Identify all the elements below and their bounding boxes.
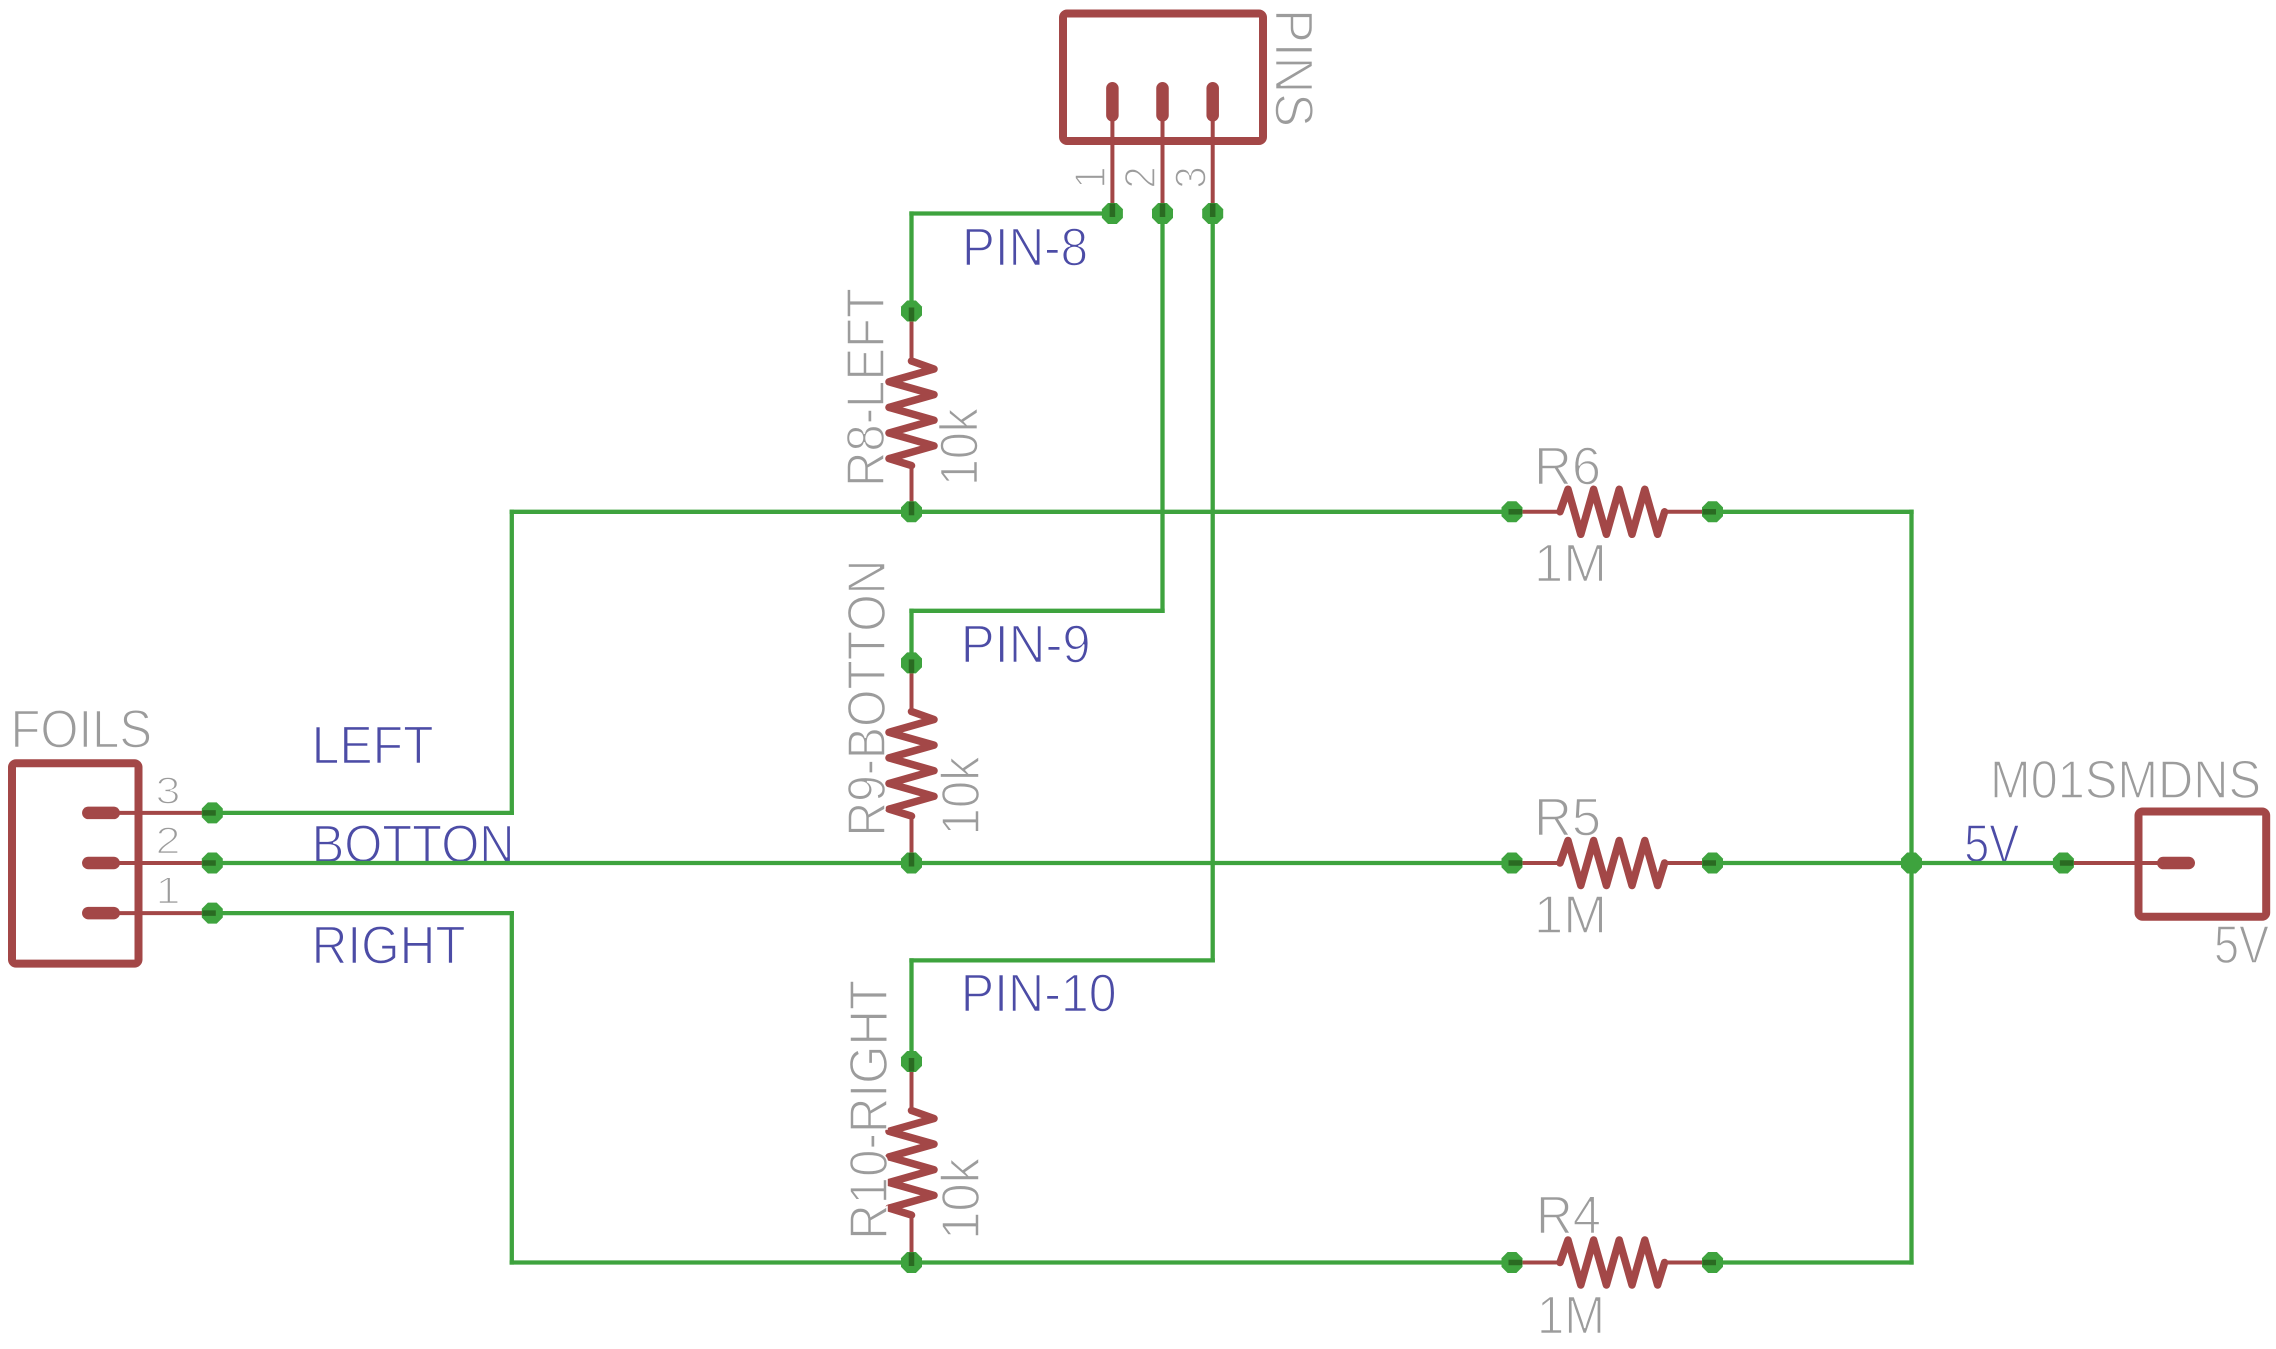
resistor R5 xyxy=(1512,841,1713,886)
connector PINS pin 2 xyxy=(1156,88,1169,213)
label R4 value 1M xyxy=(1537,1286,1605,1346)
svg-text:10k: 10k xyxy=(931,756,991,836)
junction R9 bottom on net BOTTON xyxy=(901,853,922,874)
label 5V under M01SMDNS xyxy=(2214,915,2269,975)
svg-text:R9-BOTTON: R9-BOTTON xyxy=(837,560,897,837)
connector PINS pin 1 xyxy=(1106,88,1119,213)
pin number 2 of PINS xyxy=(1116,167,1165,189)
svg-text:LEFT: LEFT xyxy=(312,715,434,775)
svg-text:2: 2 xyxy=(156,821,181,863)
pin number 1 of PINS xyxy=(1066,167,1115,189)
wire net LEFT vertical riser xyxy=(510,512,514,813)
svg-text:R6: R6 xyxy=(1534,437,1601,497)
connector PINS pin 3 xyxy=(1206,88,1219,213)
node R4 pin 2 xyxy=(1702,1252,1723,1273)
svg-text:1M: 1M xyxy=(1534,885,1607,945)
junction R8 bottom on net LEFT xyxy=(901,501,922,522)
connector FOILS pin 1 xyxy=(88,907,212,920)
label R6 value 1M xyxy=(1534,533,1607,593)
label R9 value 10k xyxy=(931,756,991,836)
connector FOILS body xyxy=(12,763,139,963)
svg-text:2: 2 xyxy=(1116,167,1165,189)
label R10-RIGHT name xyxy=(839,980,899,1240)
svg-text:1M: 1M xyxy=(1537,1286,1605,1346)
junction net 5V at right trunk xyxy=(1901,853,1922,874)
label M01SMDNS xyxy=(1990,750,2261,810)
net label RIGHT xyxy=(312,916,466,976)
wire net 5V to connector M01SMDNS xyxy=(1912,861,2064,865)
svg-text:R4: R4 xyxy=(1536,1185,1601,1245)
net label PIN-8 xyxy=(962,217,1088,277)
wire net PIN-10 horizontal segment xyxy=(912,958,1213,962)
label PINS xyxy=(1264,9,1324,127)
pin number 3 of PINS xyxy=(1166,167,1215,189)
pin number 2 of FOILS xyxy=(156,821,181,863)
label R4 name xyxy=(1536,1185,1601,1245)
svg-text:R5: R5 xyxy=(1534,788,1601,848)
svg-text:R10-RIGHT: R10-RIGHT xyxy=(839,980,899,1240)
node R5 pin 2 xyxy=(1702,853,1723,874)
node R5 pin 1 xyxy=(1502,853,1523,874)
connector M01SMDNS body xyxy=(2139,812,2267,917)
node R4 pin 1 xyxy=(1502,1252,1523,1273)
wire net 5V from R5 to right trunk xyxy=(1713,861,1912,865)
wire net RIGHT horizontal from FOILS pin 1 xyxy=(212,911,512,915)
svg-text:PINS: PINS xyxy=(1264,9,1324,127)
node R9 top xyxy=(901,652,922,673)
svg-text:FOILS: FOILS xyxy=(11,700,153,760)
svg-text:10k: 10k xyxy=(930,407,990,486)
node FOILS pin 3 / net LEFT xyxy=(202,802,223,823)
node R6 pin 1 xyxy=(1502,501,1523,522)
node FOILS pin 2 / net BOTTON xyxy=(202,853,223,874)
wire net RIGHT long bottom row to R4 xyxy=(512,1260,1512,1264)
resistor R4 xyxy=(1512,1240,1713,1285)
pin number 3 of FOILS xyxy=(156,770,181,812)
node PINS pin 2 / net PIN-9 xyxy=(1152,203,1173,224)
node M01SMDNS pin / net 5V xyxy=(2053,853,2074,874)
svg-text:BOTTON: BOTTON xyxy=(312,815,515,875)
resistor R9-BOTTON xyxy=(889,663,934,863)
svg-text:R8-LEFT: R8-LEFT xyxy=(836,288,896,487)
wire net BOTTON long horizontal row xyxy=(212,861,1512,865)
connector FOILS pin 2 xyxy=(88,857,212,870)
connector M01SMDNS pin 5V xyxy=(2063,857,2188,870)
wire net 5V from R6 to right trunk xyxy=(1713,510,1912,514)
label R6 name xyxy=(1534,437,1601,497)
wire net 5V right vertical trunk xyxy=(1909,512,1913,1263)
wire net PIN-8 horizontal segment xyxy=(912,211,1113,215)
resistor R8-LEFT xyxy=(889,311,934,512)
label R8-LEFT name xyxy=(836,288,896,487)
svg-text:PIN-9: PIN-9 xyxy=(961,614,1091,674)
svg-text:M01SMDNS: M01SMDNS xyxy=(1990,750,2261,810)
svg-text:1: 1 xyxy=(156,871,181,913)
node PINS pin 3 / net PIN-10 xyxy=(1202,203,1223,224)
net label PIN-9 xyxy=(961,614,1091,674)
svg-text:1M: 1M xyxy=(1534,533,1607,593)
node R8 top xyxy=(901,301,922,322)
pin number 1 of FOILS xyxy=(156,871,181,913)
svg-text:5V: 5V xyxy=(2214,915,2269,975)
svg-text:3: 3 xyxy=(1166,167,1215,189)
net label LEFT xyxy=(312,715,434,775)
wire net LEFT horizontal from FOILS pin 3 xyxy=(212,811,512,815)
node R6 pin 2 xyxy=(1702,501,1723,522)
connector PINS body xyxy=(1063,14,1263,142)
wire net PIN-9 vertical from connector pin 2 xyxy=(1160,214,1164,611)
svg-text:PIN-10: PIN-10 xyxy=(961,963,1117,1023)
svg-text:10k: 10k xyxy=(931,1157,991,1240)
node R10 top xyxy=(901,1051,922,1072)
node FOILS pin 1 / net RIGHT xyxy=(202,903,223,924)
svg-text:3: 3 xyxy=(156,770,181,812)
resistor R10-RIGHT xyxy=(889,1062,934,1263)
resistor R6 xyxy=(1512,489,1713,534)
svg-text:RIGHT: RIGHT xyxy=(312,916,466,976)
svg-text:PIN-8: PIN-8 xyxy=(962,217,1088,277)
net label BOTTON xyxy=(312,815,515,875)
label R10 value 10k xyxy=(931,1157,991,1240)
wire net PIN-9 short vertical to R9 xyxy=(909,611,913,663)
wire net PIN-9 horizontal segment xyxy=(912,609,1163,613)
label R9-BOTTON name xyxy=(837,560,897,837)
wire net PIN-10 vertical from connector pin 3 xyxy=(1211,214,1215,961)
wire net PIN-8 vertical segment xyxy=(909,214,913,312)
junction R10 bottom on net RIGHT xyxy=(901,1252,922,1273)
label R8 value 10k xyxy=(930,407,990,486)
net label PIN-10 xyxy=(961,963,1117,1023)
label FOILS xyxy=(11,700,153,760)
net label 5V xyxy=(1964,814,2019,874)
wire net LEFT long horizontal row to R6 xyxy=(512,510,1512,514)
label R5 value 1M xyxy=(1534,885,1607,945)
label R5 name xyxy=(1534,788,1601,848)
wire net 5V from R4 to right trunk xyxy=(1713,1260,1912,1264)
wire net PIN-10 short vertical to R10 xyxy=(909,960,913,1061)
node PINS pin 1 / net PIN-8 xyxy=(1102,203,1123,224)
svg-text:1: 1 xyxy=(1066,167,1115,189)
connector FOILS pin 3 xyxy=(88,807,212,820)
wire net RIGHT vertical dropper xyxy=(510,913,514,1262)
